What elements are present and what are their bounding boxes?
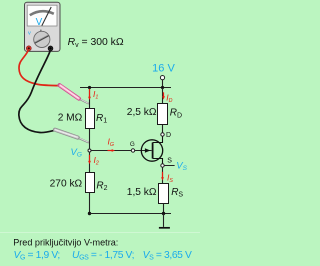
- ground: [159, 227, 170, 229]
- wire RS to bottom rail: [163, 204, 165, 215]
- current arrow ID: [162, 92, 165, 99]
- wire R2 to bottom rail: [89, 193, 91, 215]
- voltmeter M1: [25, 2, 61, 51]
- svg-text:270 kΩ: 270 kΩ: [50, 178, 83, 189]
- transistor Q1 (JFET): [141, 136, 162, 163]
- wire rail to RD: [162, 88, 164, 104]
- wire bottom rail: [90, 213, 172, 215]
- svg-text:V: V: [36, 17, 43, 28]
- resistor RS: [159, 184, 169, 204]
- wire top rail: [80, 87, 171, 89]
- svg-text:S: S: [167, 158, 172, 165]
- svg-text:2 MΩ: 2 MΩ: [58, 112, 83, 123]
- supply terminal 16V: [160, 76, 164, 80]
- svg-text:1,5 kΩ: 1,5 kΩ: [127, 187, 157, 198]
- caption values line: [14, 250, 192, 262]
- black test lead wire: [19, 51, 56, 133]
- wire gate: [90, 150, 152, 152]
- wire supply terminal to rail: [162, 80, 164, 88]
- svg-text:G: G: [130, 141, 135, 148]
- svg-text:16 V: 16 V: [152, 63, 175, 75]
- junction dot bottom right: [162, 212, 165, 215]
- terminal G: [131, 149, 134, 152]
- svg-text:v: v: [28, 31, 31, 37]
- wire RD to drain: [162, 125, 164, 133]
- current arrow IS: [161, 172, 164, 181]
- svg-text:Pred priključitvijo V-metra:: Pred priključitvijo V-metra:: [13, 237, 118, 247]
- resistor R1: [86, 109, 95, 129]
- svg-text:2,5 kΩ: 2,5 kΩ: [127, 107, 157, 118]
- junction dot top right: [161, 86, 164, 89]
- terminal S: [161, 164, 164, 167]
- wire source to RS: [162, 167, 164, 183]
- current arrow IG: [108, 149, 116, 152]
- node VG: [88, 149, 91, 152]
- current arrow I2: [88, 155, 91, 164]
- junction dot top left: [88, 86, 91, 89]
- black probe: [55, 130, 89, 143]
- wire rail to ground: [163, 214, 165, 227]
- junction dot bottom left: [88, 212, 91, 215]
- red probe: [60, 85, 89, 104]
- resistor RD: [158, 104, 168, 125]
- terminal D: [161, 133, 164, 136]
- caption separator line: [0, 232, 200, 233]
- wire S stub to VS: [164, 165, 174, 167]
- resistor R2: [86, 173, 95, 193]
- wire R1 to VG node: [89, 129, 91, 173]
- svg-text:D: D: [166, 132, 171, 139]
- wire rail to R1: [89, 88, 91, 109]
- red test lead wire: [19, 50, 61, 85]
- current arrow I1: [88, 89, 91, 100]
